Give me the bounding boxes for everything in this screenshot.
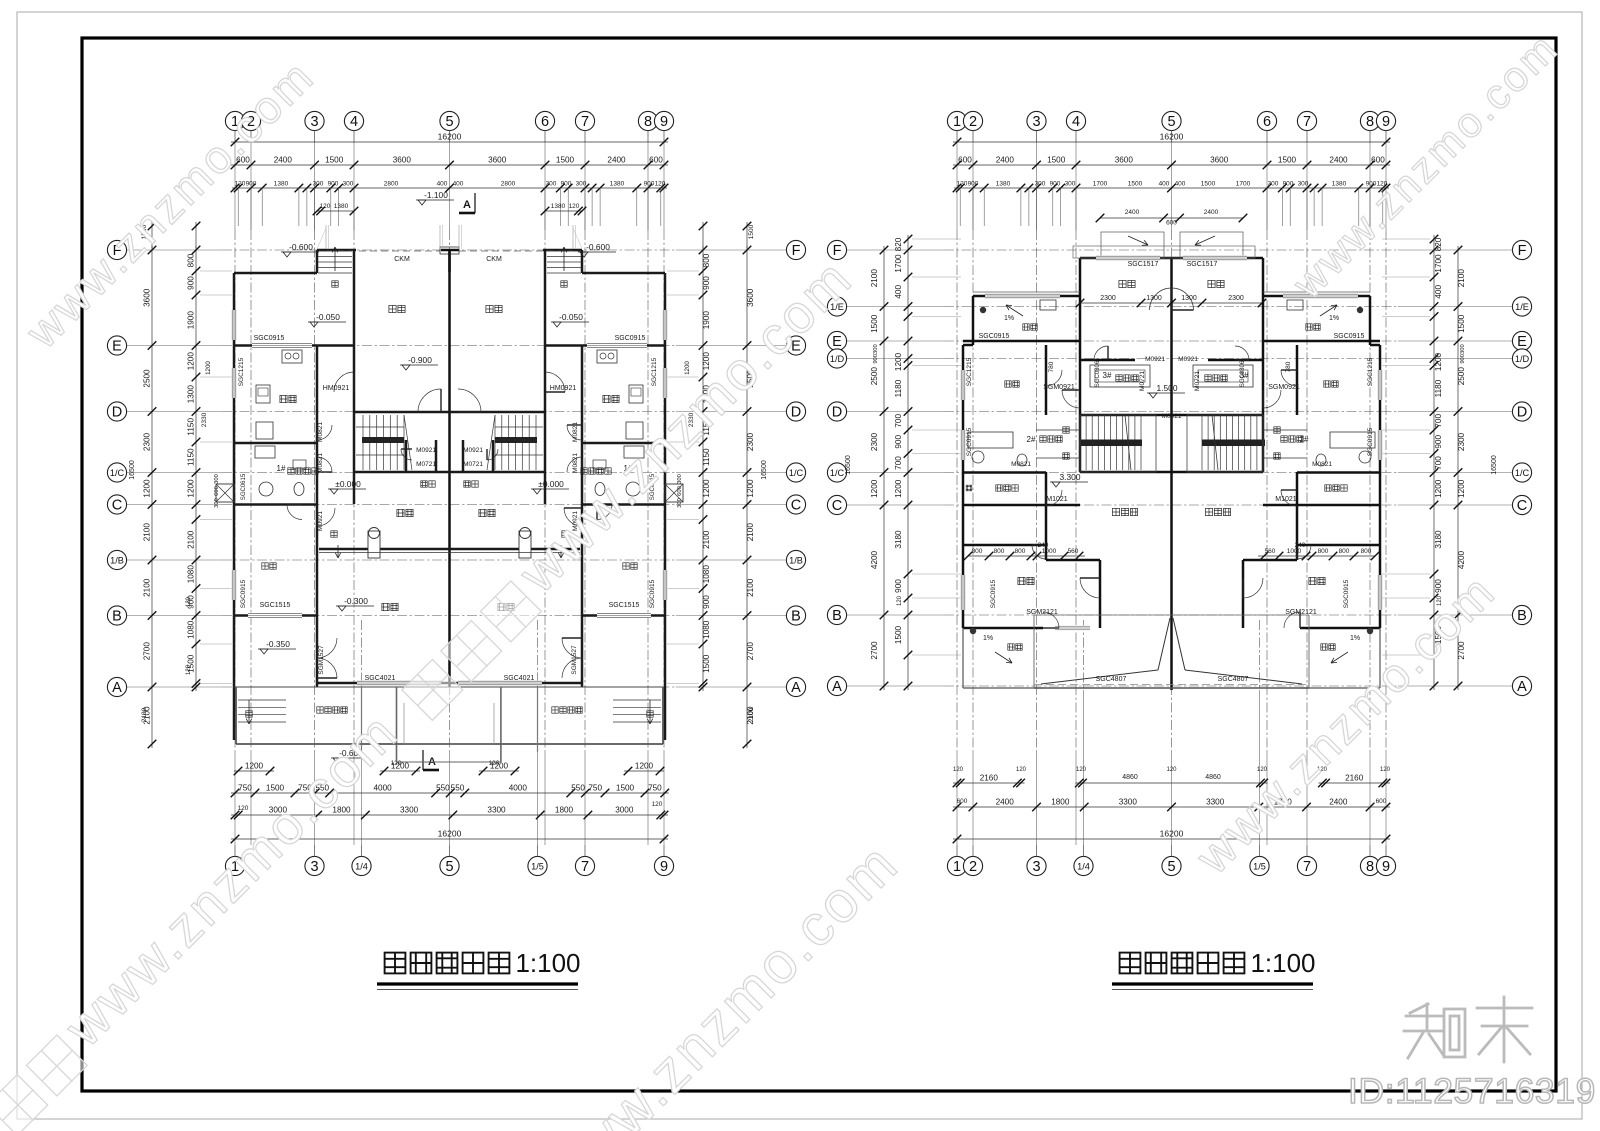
svg-text:2#: 2# [1300,435,1309,444]
svg-text:1500: 1500 [1128,181,1143,188]
svg-text:SGC0915: SGC0915 [1334,333,1365,340]
svg-text:1380: 1380 [551,203,566,210]
svg-text:3: 3 [1032,114,1040,130]
svg-text:M0921: M0921 [317,511,324,531]
svg-text:C: C [112,498,122,514]
svg-text:1200: 1200 [684,361,691,375]
svg-text:800: 800 [1015,548,1026,555]
svg-text:2400: 2400 [1125,209,1140,216]
svg-text:1500: 1500 [702,654,711,673]
svg-text:120: 120 [1016,767,1027,773]
svg-text:1200: 1200 [894,352,903,371]
svg-text:1/E: 1/E [1515,302,1529,312]
svg-text:4200: 4200 [1457,550,1466,569]
svg-text:700: 700 [894,456,903,470]
svg-text:16200: 16200 [1160,132,1184,142]
svg-text:1080: 1080 [187,565,196,584]
svg-text:B: B [1517,608,1527,624]
svg-text:M0921: M0921 [1162,413,1182,420]
svg-text:600: 600 [1166,220,1177,227]
svg-text:4: 4 [1072,114,1080,130]
svg-text:1700: 1700 [1434,254,1443,273]
svg-text:9: 9 [1382,114,1390,130]
svg-text:1/C: 1/C [830,468,845,478]
svg-text:HM0921: HM0921 [323,385,350,392]
svg-text:3: 3 [1032,859,1040,875]
svg-text:300: 300 [677,498,683,508]
svg-text:9: 9 [660,859,668,875]
svg-text:1180: 1180 [1434,379,1443,397]
svg-text:2500: 2500 [870,367,879,386]
svg-text:C: C [832,498,842,514]
svg-text:SGC1215: SGC1215 [966,357,973,386]
svg-text:2700: 2700 [870,641,879,660]
svg-text:1500: 1500 [870,314,879,333]
svg-text:1:100: 1:100 [1250,948,1315,978]
svg-text:A: A [463,199,471,211]
svg-text:900: 900 [894,579,903,593]
svg-text:2400: 2400 [274,156,293,165]
svg-text:400: 400 [1159,181,1170,188]
svg-text:8: 8 [1366,859,1374,875]
svg-text:300: 300 [214,498,220,508]
svg-text:2400: 2400 [1204,209,1219,216]
svg-text:1/D: 1/D [1515,354,1530,364]
svg-text:560: 560 [1068,548,1079,555]
svg-text:1200: 1200 [187,352,196,371]
svg-text:SGC0806: SGC0806 [1095,360,1101,387]
svg-text:2300: 2300 [1100,295,1116,302]
svg-text:CKM: CKM [486,256,502,263]
svg-text:M0921: M0921 [463,447,483,454]
svg-text:1#: 1# [277,464,286,473]
svg-text:800: 800 [702,253,711,267]
svg-text:SGM0921: SGM0921 [1268,384,1300,391]
svg-text:SGC1215: SGC1215 [238,357,245,386]
svg-text:3180: 3180 [894,530,903,549]
svg-text:600: 600 [214,486,220,496]
svg-text:1200: 1200 [870,479,879,498]
svg-text:2: 2 [969,114,977,130]
svg-text:SGC0806: SGC0806 [1240,360,1246,387]
svg-text:400: 400 [1175,181,1186,188]
svg-text:16200: 16200 [1160,829,1184,839]
svg-text:B: B [832,608,842,624]
svg-text:2300: 2300 [746,432,755,451]
svg-text:1500: 1500 [1278,156,1297,165]
svg-text:1900: 1900 [702,311,711,330]
svg-text:2400: 2400 [996,156,1015,165]
svg-text:F: F [833,243,842,259]
svg-text:F: F [1518,243,1527,259]
svg-text:120: 120 [489,760,500,767]
svg-text:120: 120 [652,801,663,808]
svg-text:1200: 1200 [1434,352,1443,371]
svg-text:SGC0915: SGC0915 [254,335,285,342]
svg-text:800: 800 [1361,548,1372,555]
svg-text:800: 800 [187,253,196,267]
svg-text:1700: 1700 [1236,181,1251,188]
svg-text:1/C: 1/C [789,468,804,478]
svg-text:550: 550 [451,784,465,793]
svg-text:1: 1 [953,859,961,875]
svg-text:800: 800 [1318,548,1329,555]
svg-text:120: 120 [320,203,331,210]
svg-text:3300: 3300 [487,806,506,815]
svg-text:1/5: 1/5 [1253,861,1266,871]
svg-text:16200: 16200 [438,829,462,839]
svg-text:1380: 1380 [1332,181,1347,188]
svg-text:C: C [791,498,801,514]
svg-text:M1021: M1021 [1046,496,1068,503]
svg-text:1080: 1080 [702,620,711,639]
svg-text:SGC4807: SGC4807 [1218,676,1249,683]
svg-text:8: 8 [644,114,652,130]
svg-text:2160: 2160 [1345,774,1364,783]
svg-text:16500: 16500 [1491,455,1498,475]
svg-text:A: A [791,680,801,696]
svg-text:SGC4807: SGC4807 [1096,676,1127,683]
svg-text:1200: 1200 [187,479,196,498]
svg-text:3#: 3# [1103,371,1112,380]
svg-text:2300: 2300 [143,432,152,451]
svg-text:7: 7 [1303,859,1311,875]
svg-text:1%: 1% [983,635,993,642]
svg-text:700: 700 [894,414,903,428]
svg-text:SGC1517: SGC1517 [1187,261,1218,268]
svg-text:1500: 1500 [1201,181,1216,188]
svg-text:4000: 4000 [509,784,528,793]
svg-text:1200: 1200 [143,479,152,498]
svg-text:SGC0915: SGC0915 [966,427,973,456]
svg-text:M0821: M0821 [1011,461,1031,468]
svg-text:1/C: 1/C [1515,468,1530,478]
svg-text:120: 120 [186,664,192,675]
svg-text:1%: 1% [1329,315,1339,322]
svg-text:SGM2121: SGM2121 [1026,609,1058,616]
svg-text:M0921: M0921 [1145,356,1165,363]
svg-text:600: 600 [1371,156,1385,165]
svg-text:4200: 4200 [870,550,879,569]
svg-text:-0.350: -0.350 [266,639,290,649]
svg-text:2#: 2# [1027,435,1036,444]
svg-text:1000: 1000 [1287,548,1302,555]
svg-text:M0921: M0921 [416,447,436,454]
svg-text:900300: 900300 [873,344,879,363]
svg-text:800: 800 [972,548,983,555]
svg-text:300: 300 [1298,181,1309,188]
svg-text:D: D [832,405,842,421]
svg-text:2330: 2330 [201,412,208,427]
svg-text:1200: 1200 [1457,479,1466,498]
svg-text:SGC1215: SGC1215 [651,357,658,386]
svg-text:1000: 1000 [1042,548,1057,555]
svg-text:3.300: 3.300 [1060,472,1081,482]
svg-text:900: 900 [894,435,903,449]
svg-text:±0.000: ±0.000 [538,479,564,489]
svg-text:550: 550 [571,784,585,793]
svg-text:2500: 2500 [143,369,152,388]
svg-text:900: 900 [702,276,711,290]
svg-text:120: 120 [238,805,249,812]
svg-text:-0.900: -0.900 [408,355,432,365]
svg-text:780: 780 [1048,361,1055,372]
svg-text:-0.300: -0.300 [344,596,368,606]
svg-text:1/C: 1/C [110,468,125,478]
svg-text:1380: 1380 [334,203,349,210]
svg-text:CKM: CKM [394,256,410,263]
svg-text:C: C [1517,498,1527,514]
svg-text:1150: 1150 [187,418,196,436]
svg-text:SGM2121: SGM2121 [1285,609,1317,616]
svg-text:SGC1215: SGC1215 [1367,357,1374,386]
svg-text:780: 780 [1285,361,1292,372]
svg-text:600: 600 [677,486,683,496]
svg-text:M0821: M0821 [1312,461,1332,468]
svg-text:9: 9 [660,114,668,130]
svg-text:F: F [792,243,801,259]
svg-text:1180: 1180 [894,379,903,397]
svg-text:800: 800 [994,548,1005,555]
svg-text:900300: 900300 [1460,344,1466,363]
svg-text:400: 400 [437,181,448,188]
svg-text:3600: 3600 [488,156,507,165]
svg-text:3600: 3600 [1210,156,1229,165]
svg-text:1200: 1200 [894,479,903,498]
svg-text:2: 2 [969,859,977,875]
svg-text:2800: 2800 [501,181,516,188]
svg-text:400: 400 [453,181,464,188]
svg-text:3300: 3300 [1206,798,1225,807]
svg-text:1/D: 1/D [830,354,845,364]
svg-text:1/B: 1/B [789,555,803,565]
svg-text:3: 3 [310,114,318,130]
svg-text:2400: 2400 [1329,798,1348,807]
svg-text:2700: 2700 [143,642,152,661]
svg-text:1/4: 1/4 [355,861,368,871]
svg-text:820: 820 [1434,237,1443,251]
svg-text:-0.050: -0.050 [316,312,340,322]
svg-text:820: 820 [894,237,903,251]
svg-text:2100: 2100 [143,523,152,542]
svg-text:SGC1515: SGC1515 [260,602,291,609]
svg-text:M0921: M0921 [1178,356,1198,363]
svg-text:2100: 2100 [1457,269,1466,288]
svg-text:16500: 16500 [129,460,136,480]
svg-text:600: 600 [958,156,972,165]
svg-text:5: 5 [1167,859,1175,875]
svg-text:1500: 1500 [616,784,635,793]
svg-text:1:100: 1:100 [515,948,580,978]
svg-text:SGM1527: SGM1527 [318,645,325,675]
svg-text:SGC1517: SGC1517 [1128,261,1159,268]
svg-text:1080: 1080 [187,620,196,639]
svg-text:3180: 3180 [1434,530,1443,549]
svg-text:4860: 4860 [1122,774,1138,781]
svg-text:1380: 1380 [274,181,289,188]
svg-text:300: 300 [214,474,220,484]
svg-text:A: A [112,680,122,696]
svg-text:SGM0921: SGM0921 [1043,384,1075,391]
svg-text:2800: 2800 [384,181,399,188]
svg-text:ID:1125716319: ID:1125716319 [1348,1071,1596,1111]
svg-text:2400: 2400 [1329,156,1348,165]
svg-text:1500: 1500 [748,224,755,239]
svg-text:2160: 2160 [980,774,999,783]
svg-text:D: D [1517,405,1527,421]
svg-text:3300: 3300 [1119,798,1138,807]
svg-text:1%: 1% [1004,315,1014,322]
svg-text:2300: 2300 [1457,432,1466,451]
svg-text:SGC0915: SGC0915 [649,579,656,608]
svg-text:2300: 2300 [1228,295,1244,302]
svg-text:2100: 2100 [187,530,196,549]
svg-text:M0721: M0721 [416,461,436,468]
svg-text:1200: 1200 [1434,479,1443,498]
svg-text:SGC0915: SGC0915 [615,335,646,342]
svg-text:1200: 1200 [746,479,755,498]
svg-text:1200: 1200 [635,762,654,771]
svg-text:-0.600: -0.600 [289,242,313,252]
svg-text:1300: 1300 [187,385,196,404]
svg-text:A: A [832,679,842,695]
svg-text:SGM1527: SGM1527 [571,645,578,675]
svg-text:120: 120 [1166,767,1177,773]
svg-text:A: A [1517,679,1527,695]
svg-text:D: D [791,405,801,421]
svg-text:1150: 1150 [187,448,196,466]
svg-text:SGC0915: SGC0915 [1367,427,1374,456]
svg-text:700: 700 [1434,456,1443,470]
svg-text:900: 900 [187,276,196,290]
svg-text:M1021: M1021 [1275,496,1297,503]
svg-text:120: 120 [1076,767,1087,773]
svg-text:3000: 3000 [615,806,634,815]
svg-text:-1.100: -1.100 [424,190,448,200]
svg-text:7: 7 [1303,114,1311,130]
svg-text:M0821: M0821 [317,422,324,442]
svg-text:SGC0915: SGC0915 [990,579,997,608]
svg-text:M0721: M0721 [1139,371,1146,391]
svg-text:SGC0915: SGC0915 [979,333,1010,340]
svg-text:M0821: M0821 [572,422,579,442]
svg-text:16200: 16200 [438,132,462,142]
svg-text:1080: 1080 [702,565,711,584]
svg-text:5: 5 [445,114,453,130]
svg-text:1300: 1300 [1181,295,1197,302]
svg-text:120: 120 [897,595,903,606]
svg-text:HM0921: HM0921 [550,385,577,392]
svg-text:D: D [112,405,122,421]
svg-text:240: 240 [1295,542,1306,549]
svg-text:SGC4021: SGC4021 [504,675,535,682]
svg-text:3600: 3600 [143,288,152,307]
svg-text:16500: 16500 [845,455,852,475]
svg-text:120: 120 [186,596,192,607]
svg-text:M0721: M0721 [463,461,483,468]
svg-text:1900: 1900 [187,311,196,330]
svg-text:6: 6 [541,114,549,130]
svg-text:750: 750 [648,784,662,793]
svg-text:700: 700 [1434,414,1443,428]
svg-text:2100: 2100 [870,269,879,288]
svg-text:SGC4021: SGC4021 [365,675,396,682]
svg-text:1%: 1% [1350,635,1360,642]
svg-text:750: 750 [238,784,252,793]
svg-text:SGC0915: SGC0915 [1343,579,1350,608]
svg-text:2100: 2100 [702,530,711,549]
svg-text:750: 750 [588,784,602,793]
svg-text:1500: 1500 [894,625,903,644]
svg-text:550: 550 [436,784,450,793]
svg-text:E: E [112,339,122,355]
svg-text:300: 300 [576,181,587,188]
svg-text:120: 120 [953,767,964,773]
svg-text:4860: 4860 [1205,774,1221,781]
svg-text:1200: 1200 [702,479,711,498]
svg-text:600: 600 [649,156,663,165]
svg-text:E: E [832,334,842,350]
svg-text:800: 800 [1339,548,1350,555]
svg-text:5: 5 [1167,114,1175,130]
svg-text:1300: 1300 [1146,295,1162,302]
svg-text:560: 560 [1265,548,1276,555]
svg-text:300: 300 [343,181,354,188]
svg-text:3600: 3600 [1115,156,1134,165]
svg-text:1200: 1200 [205,361,212,375]
svg-text:B: B [791,609,801,625]
svg-text:8: 8 [1366,114,1374,130]
svg-text:3: 3 [310,859,318,875]
svg-text:B: B [112,609,122,625]
svg-text:400: 400 [894,285,903,299]
svg-text:1500: 1500 [325,156,344,165]
svg-text:120: 120 [1380,767,1391,773]
svg-text:9: 9 [1382,859,1390,875]
svg-text:M0721: M0721 [1194,371,1201,391]
svg-text:2300: 2300 [870,432,879,451]
svg-text:1380: 1380 [610,181,625,188]
svg-text:600: 600 [1376,798,1387,805]
svg-text:1500: 1500 [1457,314,1466,333]
svg-text:E: E [1517,334,1527,350]
svg-text:2100: 2100 [746,578,755,597]
svg-text:600: 600 [957,798,968,805]
svg-text:2500: 2500 [1457,367,1466,386]
svg-text:400: 400 [1434,285,1443,299]
svg-text:1800: 1800 [1051,798,1070,807]
svg-text:6: 6 [1263,114,1271,130]
svg-text:1800: 1800 [555,806,574,815]
svg-text:SGC0615: SGC0615 [241,473,247,500]
svg-text:2100: 2100 [141,707,148,722]
svg-text:120: 120 [569,203,580,210]
svg-text:1500: 1500 [556,156,575,165]
svg-text:1/5: 1/5 [531,861,544,871]
svg-text:1700: 1700 [894,254,903,273]
svg-text:3600: 3600 [746,288,755,307]
svg-text:2700: 2700 [746,642,755,661]
svg-text:1380: 1380 [996,181,1011,188]
svg-text:4: 4 [350,114,358,130]
svg-text:2100: 2100 [748,707,755,722]
svg-text:16500: 16500 [761,460,768,480]
svg-text:1.500: 1.500 [1157,383,1178,393]
svg-text:300: 300 [1065,181,1076,188]
svg-text:SGC0915: SGC0915 [240,579,247,608]
svg-text:4000: 4000 [373,784,392,793]
svg-text:1200: 1200 [245,762,264,771]
